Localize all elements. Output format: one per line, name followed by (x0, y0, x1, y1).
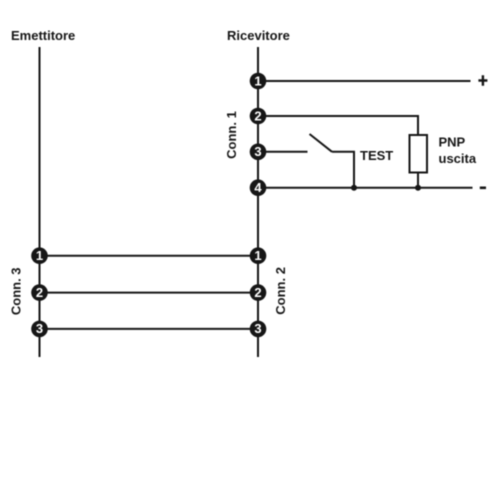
svg-text:1: 1 (36, 248, 43, 263)
junction switch / minus rail (351, 185, 357, 191)
connector pin 3 (Conn. 3) (31, 321, 48, 338)
svg-text:TEST: TEST (360, 148, 393, 163)
connector pin 3 (Conn. 2) (250, 321, 267, 338)
svg-text:Conn. 2: Conn. 2 (273, 267, 288, 315)
wire pin3 to switch (258, 151, 308, 153)
svg-text:Ricevitore: Ricevitore (227, 28, 290, 43)
svg-text:1: 1 (254, 73, 261, 88)
wire conn3 pin1 to conn2 pin1 (40, 255, 259, 257)
wire switch to junction (332, 152, 354, 188)
svg-text:Conn. 1: Conn. 1 (224, 111, 239, 159)
wire conn3 pin3 to conn2 pin3 (40, 328, 259, 330)
svg-text:3: 3 (254, 144, 261, 159)
svg-text:2: 2 (254, 108, 261, 123)
connector pin 4 (Conn. 1) (250, 179, 267, 196)
svg-text:2: 2 (254, 285, 261, 300)
wire resistor bottom to minus rail (417, 173, 419, 188)
svg-text:Conn. 3: Conn. 3 (9, 267, 24, 315)
svg-text:Emettitore: Emettitore (11, 28, 75, 43)
connector pin 2 (Conn. 2) (250, 284, 267, 301)
wire pin2 to PNP resistor top (258, 116, 418, 135)
connector pin 2 (Conn. 3) (31, 284, 48, 301)
wire pin4 to - supply (258, 187, 473, 189)
switch TEST blade (310, 134, 333, 152)
connector pin 1 (Conn. 3) (31, 247, 48, 264)
resistor PNP uscita load (410, 135, 428, 173)
connector pin 2 (Conn. 1) (250, 108, 267, 125)
svg-text:3: 3 (254, 321, 261, 336)
connector pin 1 (Conn. 2) (250, 247, 267, 264)
wire conn3 pin2 to conn2 pin2 (40, 292, 259, 294)
minus supply symbol (480, 187, 486, 190)
wire pin1 to + supply (258, 80, 471, 82)
plus supply symbol (478, 75, 487, 86)
connector pin 1 (Conn. 1) (250, 73, 267, 90)
svg-text:2: 2 (36, 285, 43, 300)
svg-text:4: 4 (254, 180, 262, 195)
svg-text:uscita: uscita (439, 151, 477, 166)
junction resistor / minus rail (415, 185, 421, 191)
svg-text:1: 1 (254, 248, 261, 263)
svg-text:PNP: PNP (439, 135, 466, 150)
wire receiver vertical bus (257, 47, 259, 357)
svg-text:3: 3 (36, 321, 43, 336)
connector pin 3 (Conn. 1) (250, 144, 267, 161)
wire emitter vertical bus (39, 47, 41, 357)
